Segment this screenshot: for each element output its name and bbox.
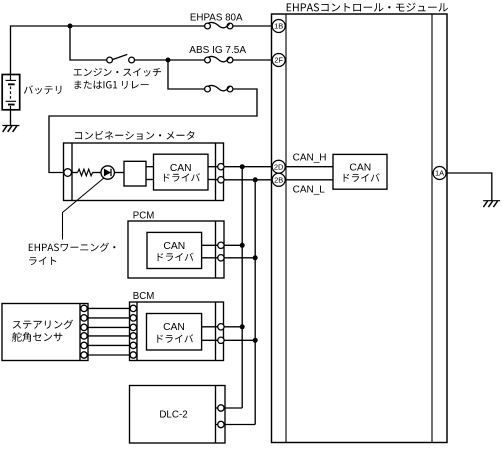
resistor meter xyxy=(78,169,93,176)
svg-text:BCM: BCM xyxy=(133,291,155,302)
wire fuse ABS to module pin 2F xyxy=(233,59,272,61)
fuse ABS IG 7.5A xyxy=(205,57,211,63)
wire to resistor xyxy=(72,172,78,174)
pin sensor 1 xyxy=(81,305,87,311)
node CAN_L junction BCM xyxy=(253,338,258,343)
pin 2F xyxy=(272,54,285,67)
pin DLC-2 upper xyxy=(218,405,224,411)
pin BCM left 3 xyxy=(130,324,136,330)
label steering angle sensor xyxy=(13,320,73,329)
svg-text:CAN_L: CAN_L xyxy=(293,185,326,196)
pin BCM right upper xyxy=(218,324,224,330)
CAN driver BCM xyxy=(147,314,202,351)
wire sensor to BCM 2 xyxy=(84,317,133,319)
pin meter right upper xyxy=(218,164,224,170)
ground battery xyxy=(2,125,19,127)
svg-text:EHPAS 80A: EHPAS 80A xyxy=(190,12,243,23)
BCM box xyxy=(130,302,224,361)
wire CAN_L bus xyxy=(254,180,256,425)
pin sensor 2 xyxy=(81,315,87,321)
pin 1A xyxy=(433,167,446,180)
pin PCM lower xyxy=(218,255,224,261)
wire sensor to BCM 1 xyxy=(84,307,133,309)
node CAN_H junction BCM xyxy=(240,324,245,329)
pin BCM left 6 xyxy=(130,352,136,358)
CAN driver meter xyxy=(154,154,209,190)
label engine switch or IG1 relay xyxy=(74,68,161,77)
wire DLC-2 CAN_L xyxy=(216,424,256,426)
wire pin 1A to ground xyxy=(447,173,492,201)
wire battery to ground xyxy=(10,110,12,126)
wire interface to CAN driver xyxy=(146,166,154,168)
fuse EHPAS 80A xyxy=(205,23,211,29)
DLC-2 box xyxy=(130,386,226,444)
interface box meter xyxy=(124,161,146,186)
svg-text:ABS IG 7.5A: ABS IG 7.5A xyxy=(189,45,246,56)
svg-text:CAN: CAN xyxy=(163,241,185,252)
node junction switch output xyxy=(166,58,171,63)
label EHPAS control module xyxy=(287,3,448,12)
wire LED to interface box xyxy=(114,172,124,174)
node CAN_H junction PCM xyxy=(240,243,245,248)
wire switch to fuse ABS IG xyxy=(135,59,205,61)
pin sensor 6 xyxy=(81,352,87,358)
wire pin 2D to CAN driver xyxy=(272,166,333,168)
svg-text:2D: 2D xyxy=(274,162,284,171)
steering angle sensor box xyxy=(2,304,88,361)
pin BCM left 4 xyxy=(130,333,136,339)
svg-text:CAN: CAN xyxy=(349,163,371,174)
switch engine/IG1 relay xyxy=(107,57,113,63)
wire sensor to BCM 5 xyxy=(84,344,133,346)
node junction battery feed xyxy=(68,24,73,29)
svg-text:CAN: CAN xyxy=(170,163,192,174)
wire sensor to BCM 6 xyxy=(84,354,133,356)
pin BCM right lower xyxy=(218,337,224,343)
callout line warning light xyxy=(63,178,104,239)
wire junction down to meter fuse xyxy=(168,60,205,89)
wire pin 2B to CAN driver xyxy=(272,179,333,181)
label combination meter xyxy=(75,131,195,140)
wire fuse to combination meter xyxy=(49,89,257,173)
node CAN_L junction PCM xyxy=(253,255,258,260)
label battery xyxy=(24,85,62,94)
svg-text:1B: 1B xyxy=(274,22,283,31)
pin sensor 5 xyxy=(81,342,87,348)
fuse meter xyxy=(205,86,211,92)
pin DLC-2 lower xyxy=(218,421,224,427)
pin BCM left 1 xyxy=(130,305,136,311)
label EHPAS warning light xyxy=(29,243,116,252)
pin BCM left 5 xyxy=(130,342,136,348)
combination meter box xyxy=(64,143,224,201)
wire junction to ignition switch xyxy=(70,26,107,60)
module EHPAS control xyxy=(272,14,448,443)
pin sensor 3 xyxy=(81,324,87,330)
svg-text:2B: 2B xyxy=(274,176,283,185)
svg-text:DLC-2: DLC-2 xyxy=(159,409,187,420)
svg-text:2F: 2F xyxy=(274,56,283,65)
pin BCM left 2 xyxy=(130,315,136,321)
pin 2D xyxy=(272,160,285,173)
pin 2B xyxy=(272,173,285,186)
svg-text:PCM: PCM xyxy=(133,210,155,221)
wire meter CAN_H out xyxy=(208,166,272,168)
wire fuse EHPAS to module pin 1B xyxy=(233,25,272,27)
battery xyxy=(2,75,20,110)
wire sensor to BCM 3 xyxy=(84,326,133,328)
svg-text:CAN_H: CAN_H xyxy=(293,153,327,164)
pin sensor 4 xyxy=(81,333,87,339)
pin PCM upper xyxy=(218,242,224,248)
ground module xyxy=(483,200,500,202)
node CAN_L junction meter xyxy=(253,177,258,182)
pin meter right lower xyxy=(218,177,224,183)
wire BCM CAN_H xyxy=(202,326,243,328)
PCM box xyxy=(128,221,224,278)
CAN driver PCM xyxy=(147,232,202,268)
wire DLC-2 CAN_H xyxy=(216,407,243,409)
wire CAN_H bus xyxy=(241,167,243,408)
LED warning lamp xyxy=(101,166,114,179)
wire BCM CAN_L xyxy=(202,339,256,341)
node CAN_H junction meter xyxy=(240,164,245,169)
wire battery B+ to fuse EHPAS xyxy=(11,26,205,75)
svg-text:1A: 1A xyxy=(435,169,444,178)
wire resistor to LED xyxy=(93,172,102,174)
pin meter left connector xyxy=(64,169,72,177)
wire sensor to BCM 4 xyxy=(84,335,133,337)
svg-text:CAN: CAN xyxy=(163,322,185,333)
pin 1B xyxy=(272,20,285,33)
wire meter CAN_L out xyxy=(208,179,217,181)
wire PCM CAN_H xyxy=(202,244,243,246)
CAN driver module xyxy=(333,154,387,189)
wire PCM CAN_L xyxy=(202,257,256,259)
